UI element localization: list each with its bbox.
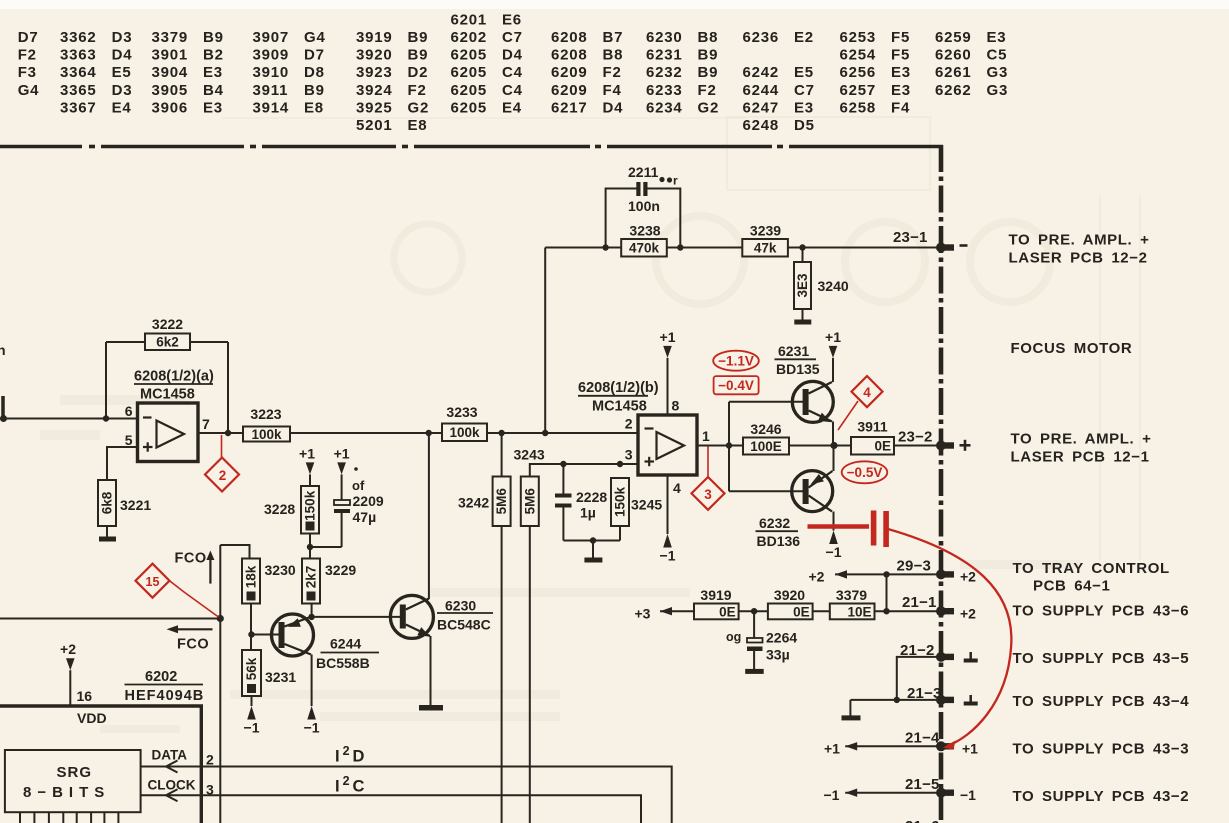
svg-text:6230: 6230 <box>646 29 683 46</box>
FCO up arrow <box>175 551 215 584</box>
svg-text:TO SUPPLY PCB 43−4: TO SUPPLY PCB 43−4 <box>1013 693 1190 710</box>
svg-text:6202: 6202 <box>451 29 488 46</box>
svg-text:8: 8 <box>672 398 680 414</box>
node: 3228/2209/2k7 junction <box>307 544 313 550</box>
wire: pin4 down <box>667 475 669 534</box>
svg-text:3: 3 <box>704 487 712 502</box>
resistor 3233 100k <box>442 404 487 441</box>
svg-text:21−4: 21−4 <box>905 730 940 747</box>
wire: 2264 bottom <box>753 651 755 669</box>
svg-text:2228: 2228 <box>576 489 607 505</box>
node: 2211 right tap <box>677 244 683 250</box>
svg-text:3906: 3906 <box>152 99 189 116</box>
node: 2211 left tap <box>602 244 608 250</box>
svg-text:21−6: 21−6 <box>905 818 940 823</box>
svg-text:D3: D3 <box>112 29 133 46</box>
svg-text:10E: 10E <box>847 604 871 619</box>
red diamond 3 <box>692 477 725 510</box>
svg-text:TO SUPPLY PCB 43−5: TO SUPPLY PCB 43−5 <box>1013 650 1190 667</box>
svg-text:3231: 3231 <box>265 669 296 685</box>
svg-text:−1: −1 <box>824 787 840 803</box>
svg-text:6253: 6253 <box>840 29 877 46</box>
svg-text:E3: E3 <box>203 64 223 81</box>
wire: 21-4 row <box>845 745 938 747</box>
svg-text:3228: 3228 <box>264 501 295 517</box>
svg-text:h: h <box>0 342 6 358</box>
svg-text:FCO: FCO <box>177 637 209 653</box>
wire: 3243 top to pin3 wire <box>530 464 638 477</box>
svg-text:F3: F3 <box>18 64 37 81</box>
wire: 6232 collector down <box>833 512 835 531</box>
svg-text:6254: 6254 <box>840 47 877 64</box>
wire: 2264 top <box>753 611 755 638</box>
svg-text:2: 2 <box>206 752 214 768</box>
op-amp U1a 6208(1/2)(a) MC1458 <box>125 369 214 462</box>
resistor 3246 100E <box>743 421 789 455</box>
capacitor C2228 1u <box>555 489 607 521</box>
svg-text:F2: F2 <box>698 82 717 99</box>
wire: 2228 bottom <box>562 508 564 541</box>
resistor 3222 6k2 <box>145 316 190 350</box>
svg-text:−0.4V: −0.4V <box>718 378 754 393</box>
supply +1 above op-amp pin8 <box>663 346 672 358</box>
capacitor C2211 100n <box>628 164 678 214</box>
node: output / feedback junction <box>225 430 231 436</box>
svg-text:D7: D7 <box>18 29 39 46</box>
svg-text:23−2: 23−2 <box>898 429 933 446</box>
svg-text:+3: +3 <box>635 606 651 622</box>
svg-text:G3: G3 <box>987 64 1009 81</box>
wire: +1 to cap 2209 <box>341 474 343 500</box>
svg-text:−1.1V: −1.1V <box>718 354 754 369</box>
svg-text:6208: 6208 <box>551 29 588 46</box>
svg-text:of: of <box>352 478 365 493</box>
svg-text:3363: 3363 <box>60 47 97 64</box>
svg-text:6201: 6201 <box>451 11 488 28</box>
supply -1 below 3231 <box>247 706 256 720</box>
resistor 3231 56k <box>242 650 296 696</box>
wire: op-amp U1a output pin7 <box>198 432 243 434</box>
svg-text:3901: 3901 <box>152 47 189 64</box>
svg-text:470k: 470k <box>629 241 660 256</box>
resistor 3911 0E <box>851 419 894 455</box>
wire: 6232 base <box>729 490 803 492</box>
svg-text:6244: 6244 <box>330 636 361 652</box>
svg-text:6244: 6244 <box>743 82 780 99</box>
wire: 3223 to op-amp U1b pin2 <box>290 432 638 434</box>
svg-text:TO SUPPLY PCB 43−6: TO SUPPLY PCB 43−6 <box>1013 603 1190 620</box>
resistor 3230 18k <box>242 559 296 604</box>
svg-text:FOCUS MOTOR: FOCUS MOTOR <box>1011 340 1133 357</box>
svg-text:6232: 6232 <box>646 64 683 81</box>
svg-text:3379: 3379 <box>152 29 189 46</box>
wire: op-amp b output <box>697 445 743 447</box>
cut-off component box edge at left <box>1 396 5 419</box>
wire: 3242 top to main wire <box>501 433 503 477</box>
svg-text:+1: +1 <box>660 329 676 345</box>
svg-text:47µ: 47µ <box>353 509 377 525</box>
wire: 6230 emitter to ground <box>430 636 432 705</box>
svg-text:3222: 3222 <box>152 316 183 332</box>
wire: 6244 collector down <box>311 655 313 707</box>
svg-text:6230: 6230 <box>445 598 476 614</box>
resistor 3920 0E <box>768 587 813 619</box>
svg-text:G4: G4 <box>18 82 40 99</box>
resistor 3243 5M6 <box>521 477 539 527</box>
svg-text:D4: D4 <box>603 99 624 116</box>
wire: +1 to 3228 <box>309 474 311 486</box>
svg-text:6236: 6236 <box>743 29 780 46</box>
svg-text:TO PRE. AMPL. +: TO PRE. AMPL. + <box>1009 232 1150 249</box>
red measurement oval -0.5V <box>842 461 888 483</box>
svg-text:G3: G3 <box>987 82 1009 99</box>
svg-text:0E: 0E <box>719 604 736 619</box>
wire: feedback row <box>545 247 937 249</box>
wire: 2211 loop left <box>606 189 637 248</box>
wire: 3245 bottom <box>619 526 621 541</box>
svg-text:DATA: DATA <box>152 748 188 763</box>
svg-text:E4: E4 <box>112 99 132 116</box>
wire: FCO vertical <box>219 545 221 823</box>
plus sign at 23-2 <box>960 440 971 451</box>
svg-text:3246: 3246 <box>750 421 781 437</box>
wire: to HEF4094 row (left) <box>0 618 220 620</box>
svg-text:6208(1/2)(a): 6208(1/2)(a) <box>134 369 214 385</box>
node: 2228 tap <box>560 461 566 467</box>
svg-text:D4: D4 <box>502 47 523 64</box>
svg-text:C7: C7 <box>794 82 815 99</box>
node: emitter node <box>830 442 837 449</box>
svg-text:3367: 3367 <box>60 99 97 116</box>
wire: +3 row <box>660 610 694 612</box>
svg-text:BC558B: BC558B <box>316 655 370 671</box>
red measurement box -0.4V <box>714 376 759 394</box>
wire: 3911 to connector 23-2 <box>894 445 938 447</box>
svg-text:B9: B9 <box>698 47 719 64</box>
arrow +3 <box>660 607 672 615</box>
svg-text:3923: 3923 <box>356 64 393 81</box>
node: 3240 tap <box>799 244 805 250</box>
svg-text:LASER PCB 12−2: LASER PCB 12−2 <box>1009 250 1148 267</box>
wire: 3221 to ground <box>106 526 108 537</box>
node: feedback-b tap <box>542 430 548 436</box>
svg-text:C4: C4 <box>502 64 523 81</box>
svg-text:33µ: 33µ <box>766 647 790 663</box>
SRG output pins <box>20 812 118 823</box>
svg-text:+2: +2 <box>60 641 76 657</box>
svg-text:6208: 6208 <box>551 47 588 64</box>
resistor 3379 10E <box>830 587 875 619</box>
svg-text:D8: D8 <box>304 64 325 81</box>
ground below 2228/3245 <box>584 558 602 563</box>
svg-text:3364: 3364 <box>60 64 97 81</box>
wire: 3379 to 21-1 <box>875 610 939 612</box>
svg-text:3919: 3919 <box>700 587 731 603</box>
PCB boundary dash-dot line horizontal <box>0 145 943 149</box>
wire: 21-3 row <box>850 699 938 701</box>
svg-text:D2: D2 <box>408 64 429 81</box>
svg-text:E3: E3 <box>794 99 814 116</box>
svg-text:100k: 100k <box>449 425 480 440</box>
svg-text:6234: 6234 <box>646 99 683 116</box>
arrow +2 (29-3) <box>835 570 847 578</box>
svg-text:3245: 3245 <box>631 497 662 513</box>
supply +2 to VDD <box>66 658 75 670</box>
PCB boundary dash-dot line vertical <box>939 145 944 823</box>
svg-text:B9: B9 <box>203 29 224 46</box>
svg-text:E3: E3 <box>891 82 911 99</box>
svg-text:0E: 0E <box>793 604 810 619</box>
small ground right of 21-2 <box>969 652 972 659</box>
wire: feedback right vertical to output node <box>227 342 229 433</box>
svg-text:E5: E5 <box>112 64 132 81</box>
svg-text:D5: D5 <box>794 117 815 134</box>
wire: 3240 top <box>802 248 804 263</box>
svg-text:3904: 3904 <box>152 64 189 81</box>
DATA arrow <box>166 761 178 773</box>
svg-text:D3: D3 <box>112 82 133 99</box>
svg-text:−1: −1 <box>826 544 842 560</box>
svg-text:3: 3 <box>625 447 633 463</box>
wire: +2 to pin16 <box>69 670 71 706</box>
wire: +1 to pin8 <box>667 358 669 415</box>
svg-text:6247: 6247 <box>743 99 780 116</box>
svg-text:2k7: 2k7 <box>304 566 319 589</box>
svg-text:G2: G2 <box>698 99 720 116</box>
svg-text:5M6: 5M6 <box>522 488 537 515</box>
svg-text:+1: +1 <box>962 741 978 757</box>
svg-text:6232: 6232 <box>759 515 790 531</box>
supply +1 above 3228 <box>306 462 315 474</box>
svg-text:3365: 3365 <box>60 82 97 99</box>
svg-text:F4: F4 <box>603 82 622 99</box>
svg-text:3905: 3905 <box>152 82 189 99</box>
svg-text:B9: B9 <box>408 47 429 64</box>
svg-text:6k8: 6k8 <box>100 491 115 514</box>
svg-text:6: 6 <box>125 403 133 419</box>
supply +1 above 2209 <box>337 462 346 474</box>
wire: 21-3 left to ground <box>849 700 851 716</box>
wire: I2D / DATA line <box>141 767 672 823</box>
input terminal <box>0 415 7 422</box>
svg-text:E8: E8 <box>304 99 324 116</box>
svg-text:6231: 6231 <box>778 343 809 359</box>
wire: 6232 emitter up to node <box>833 446 835 472</box>
svg-text:VDD: VDD <box>77 710 107 726</box>
wire: 3240 to ground <box>802 309 804 320</box>
wire: 6231 emitter down <box>832 422 834 446</box>
svg-text:3242: 3242 <box>458 495 489 511</box>
CLOCK arrow <box>166 789 178 801</box>
component location table <box>18 11 1008 134</box>
svg-text:TO TRAY CONTROL: TO TRAY CONTROL <box>1013 560 1170 577</box>
svg-text:3240: 3240 <box>818 278 849 294</box>
resistor 3228 150k <box>264 486 319 534</box>
node: output to bases <box>726 442 732 448</box>
svg-text:B9: B9 <box>304 82 325 99</box>
svg-text:47k: 47k <box>754 241 777 256</box>
wire: feedback-b vertical <box>544 248 546 434</box>
capacitor C2209 47u electrolytic <box>334 467 384 525</box>
node: 2264 tap <box>751 608 757 614</box>
node: ground stem <box>590 537 596 543</box>
svg-text:3920: 3920 <box>356 47 393 64</box>
svg-text:3925: 3925 <box>356 99 393 116</box>
svg-text:6260: 6260 <box>935 47 972 64</box>
red diamond 15 <box>136 564 170 598</box>
svg-text:BD136: BD136 <box>757 533 801 549</box>
svg-text:6205: 6205 <box>451 64 488 81</box>
ground below 2264 <box>745 669 764 674</box>
red leader from diamond 4 <box>838 401 858 430</box>
ground below 21-3 wire <box>842 715 861 720</box>
svg-text:3907: 3907 <box>253 29 290 46</box>
wire: feedback top left segment <box>106 341 145 343</box>
svg-text:3239: 3239 <box>750 223 781 239</box>
svg-text:CLOCK: CLOCK <box>148 778 196 793</box>
svg-text:+1: +1 <box>825 329 841 345</box>
svg-text:6k2: 6k2 <box>156 335 179 350</box>
svg-text:1µ: 1µ <box>580 505 596 521</box>
svg-text:E2: E2 <box>794 29 814 46</box>
svg-text:+2: +2 <box>960 606 976 622</box>
svg-text:+1: +1 <box>334 445 350 461</box>
svg-text:3238: 3238 <box>629 223 660 239</box>
transistor Q6244 BC558B <box>272 614 380 671</box>
svg-text:4: 4 <box>863 385 871 400</box>
wire: junction to 2209 <box>310 546 342 548</box>
svg-text:3920: 3920 <box>774 587 805 603</box>
wire: 3920-3379 <box>813 610 830 612</box>
wire: stem to ground <box>592 541 594 559</box>
svg-text:21−2: 21−2 <box>900 642 935 659</box>
svg-text:HEF4094B: HEF4094B <box>125 688 205 704</box>
svg-text:23−1: 23−1 <box>893 229 928 246</box>
wire: 6230 collector up to main node <box>428 433 430 599</box>
svg-text:C5: C5 <box>987 47 1008 64</box>
svg-text:2211: 2211 <box>628 164 659 180</box>
resistor 3229 2k7 <box>302 559 356 604</box>
red curve to connector 21-4 <box>888 529 1011 746</box>
svg-text:3243: 3243 <box>514 447 545 463</box>
svg-text:6231: 6231 <box>646 47 683 64</box>
svg-text:3914: 3914 <box>253 99 290 116</box>
svg-text:29−3: 29−3 <box>897 558 932 575</box>
svg-text:3223: 3223 <box>250 406 281 422</box>
svg-text:B8: B8 <box>698 29 719 46</box>
svg-text:F4: F4 <box>891 99 910 116</box>
svg-text:3362: 3362 <box>60 29 97 46</box>
wire: FCO corner to 18k <box>220 545 249 559</box>
wire: input to op-amp U1a pin6 <box>0 418 138 420</box>
SRG 8-BITS block <box>5 750 141 812</box>
svg-text:E3: E3 <box>891 64 911 81</box>
resistor 3238 470k <box>621 223 667 257</box>
svg-text:5M6: 5M6 <box>494 488 509 515</box>
op-amp U1b 6208(1/2)(b) MC1458 <box>578 380 710 496</box>
svg-text:+1: +1 <box>824 741 840 757</box>
svg-text:PCB 64−1: PCB 64−1 <box>1033 578 1110 595</box>
wire: 6231 base <box>729 401 803 403</box>
svg-text:6217: 6217 <box>551 99 588 116</box>
wire: I2C / CLOCK line <box>141 795 641 823</box>
svg-text:6248: 6248 <box>743 117 780 134</box>
node: 21-1 link <box>883 608 889 614</box>
svg-text:E5: E5 <box>794 64 814 81</box>
svg-text:C4: C4 <box>502 82 523 99</box>
node: 3245 tap <box>617 461 623 467</box>
svg-text:−1: −1 <box>244 720 260 736</box>
svg-text:B4: B4 <box>203 82 224 99</box>
svg-text:6261: 6261 <box>935 64 972 81</box>
svg-text:F2: F2 <box>408 82 427 99</box>
svg-text:MC1458: MC1458 <box>592 399 647 415</box>
wire: feedback top right segment <box>190 341 228 343</box>
wire: base node to 6244 base <box>252 634 280 636</box>
node: 3242 tap <box>498 430 504 436</box>
svg-text:3229: 3229 <box>325 562 356 578</box>
supply +1 above 6231 <box>829 346 838 358</box>
arrow -1 (21-5) <box>845 789 857 797</box>
resistor 3223 100k <box>243 406 290 442</box>
wire: junction to 6230 base <box>312 616 400 618</box>
svg-text:BC548C: BC548C <box>437 617 491 633</box>
svg-text:3233: 3233 <box>446 404 477 420</box>
ground below 6230 <box>419 705 443 711</box>
wire: 21-5 row <box>845 792 938 794</box>
wire: pin5 to resistor 3221 <box>107 447 138 480</box>
wire: feedback loop left vertical <box>105 342 107 419</box>
svg-text:B9: B9 <box>408 29 429 46</box>
wire: 6244 emitter to 2k7 <box>311 604 313 617</box>
svg-text:BD135: BD135 <box>776 361 820 377</box>
svg-text:D7: D7 <box>304 47 325 64</box>
IC 6202 HEF4094B outline <box>0 669 204 823</box>
svg-text:3911: 3911 <box>857 419 888 435</box>
svg-text:2: 2 <box>625 416 633 432</box>
red measurement oval -1.1V <box>713 351 759 371</box>
svg-text:TO PRE. AMPL. +: TO PRE. AMPL. + <box>1011 431 1152 448</box>
svg-text:F5: F5 <box>891 29 910 46</box>
wire: 2228 top <box>562 464 564 494</box>
svg-text:C7: C7 <box>502 29 523 46</box>
ground below 3240 <box>794 320 811 325</box>
svg-text:3221: 3221 <box>120 497 151 513</box>
svg-text:−1: −1 <box>660 548 676 564</box>
svg-text:5201: 5201 <box>356 117 393 134</box>
svg-text:5: 5 <box>125 432 133 448</box>
wire: base bus vertical <box>728 402 730 491</box>
wire: 3246 to emitter node <box>789 445 851 447</box>
wire: 3919-3920 <box>739 610 768 612</box>
resistor 3221 6k8 <box>98 480 151 526</box>
svg-text:−1: −1 <box>960 787 976 803</box>
wire: 3242 bottom long vertical <box>501 526 503 823</box>
svg-text:1: 1 <box>702 428 710 444</box>
wire: 18k bottom to base node <box>250 604 252 651</box>
resistor 3239 47k <box>742 223 788 257</box>
svg-text:2264: 2264 <box>766 630 797 646</box>
svg-text:B2: B2 <box>203 47 224 64</box>
node: 6230 collector tap <box>426 430 432 436</box>
svg-text:E6: E6 <box>502 11 522 28</box>
svg-text:6242: 6242 <box>743 64 780 81</box>
transistor Q6231 BD135 <box>775 343 834 422</box>
red leader from diamond 15 <box>170 581 219 617</box>
small ground right of 21-3 <box>969 695 972 702</box>
FCO left arrow <box>167 625 213 652</box>
wire: 3228 bottom to junction <box>309 534 311 559</box>
